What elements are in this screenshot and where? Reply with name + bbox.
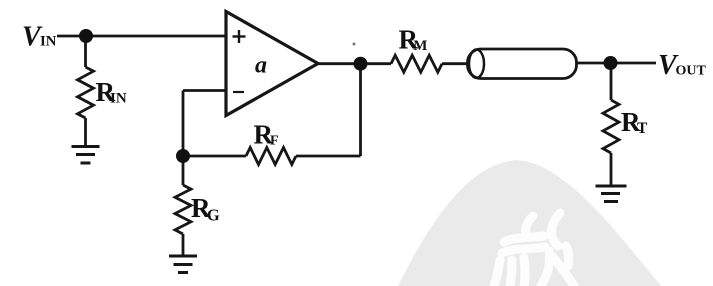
op-amp plus input symbol: [233, 30, 246, 43]
node junction at cable output: [604, 56, 618, 70]
svg-text:OUT: OUT: [676, 64, 707, 79]
resistor R_M: [391, 55, 442, 72]
ground (below R_T): [596, 186, 627, 202]
svg-text:IN: IN: [110, 91, 127, 107]
resistor R_F: [246, 148, 296, 165]
wire R_M to cable: [442, 62, 468, 65]
node junction at V_IN: [79, 29, 93, 43]
cable left end-cap ellipse: [469, 50, 484, 78]
wire node4 down to R_G: [182, 156, 185, 185]
ground (below R_G): [169, 256, 197, 273]
feedback wire horizontal right of R_F: [296, 155, 361, 158]
resistor R_T: [603, 100, 619, 153]
transmission line cable body: [468, 49, 577, 79]
wire R_F to node4: [183, 155, 246, 158]
wire R_IN to ground: [84, 118, 87, 146]
svg-text:a: a: [255, 53, 267, 79]
svg-text:F: F: [270, 134, 279, 149]
watermark glyphs: [494, 213, 574, 286]
ground (below R_IN): [72, 147, 100, 164]
svg-text:IN: IN: [40, 34, 57, 50]
wire to op-amp minus input: [183, 89, 226, 92]
wire V_IN to op-amp + input: [57, 35, 226, 38]
wire cable to node3: [577, 62, 657, 65]
node junction at op-amp output: [354, 57, 368, 71]
wire node3 down to R_T: [610, 63, 613, 100]
svg-text:M: M: [413, 38, 427, 54]
svg-text:T: T: [637, 120, 648, 137]
feedback wire node2 down: [359, 64, 362, 156]
op-amp U1 triangle: [226, 12, 318, 116]
resistor R_IN: [78, 67, 94, 118]
wire node4 up to inverting input: [182, 91, 185, 157]
resistor R_G: [175, 185, 191, 234]
stray speck: [353, 43, 356, 46]
wire R_T to ground: [610, 153, 613, 185]
wire op-amp output to node2: [318, 62, 391, 65]
wire node1 to R_IN: [84, 36, 87, 67]
op-amp minus input symbol: [233, 91, 244, 93]
watermark dome: [398, 160, 661, 286]
wire R_G to ground: [182, 234, 185, 255]
node junction at R_F / R_G: [176, 149, 190, 163]
svg-text:G: G: [207, 206, 220, 225]
